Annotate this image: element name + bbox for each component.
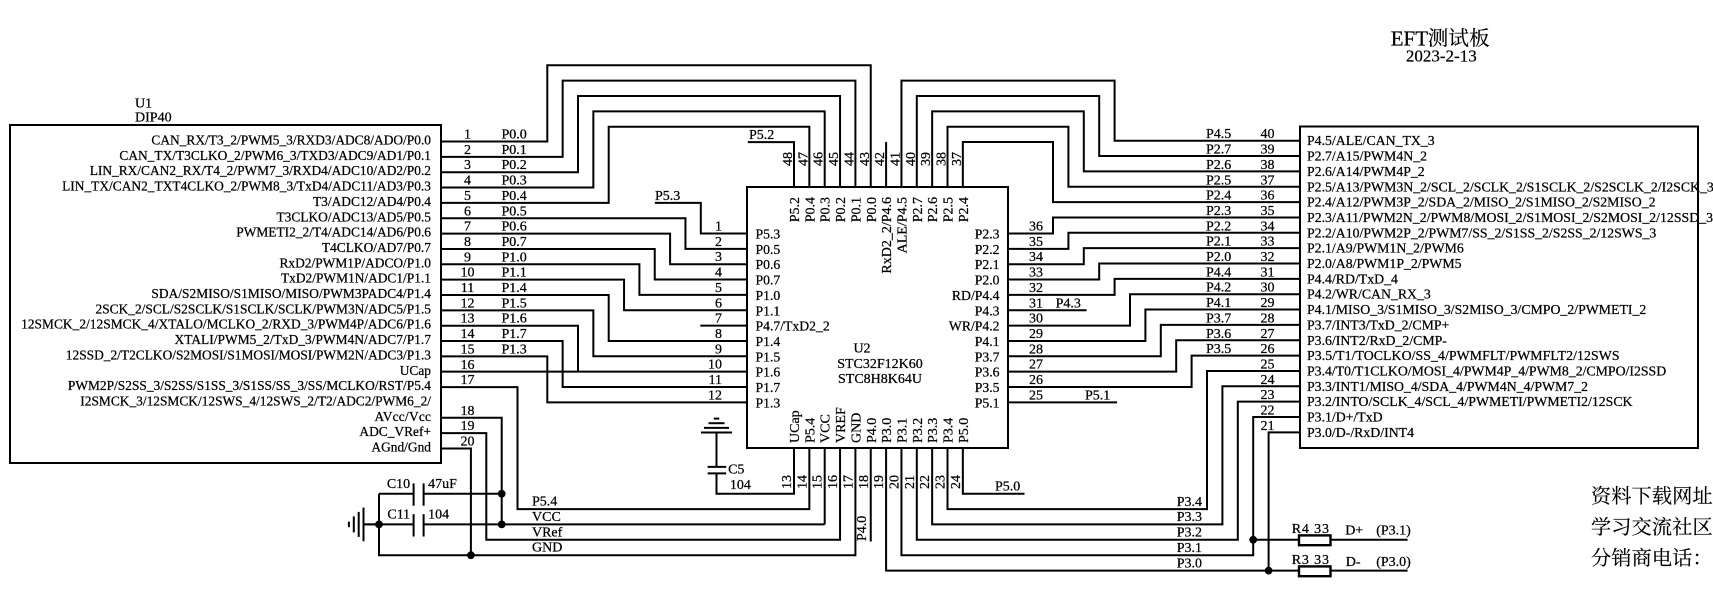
svg-text:5: 5 bbox=[464, 189, 471, 204]
wire P5.3 to U2 pin1 bbox=[655, 203, 747, 234]
svg-text:RxD2_2/P4.6: RxD2_2/P4.6 bbox=[880, 197, 895, 274]
svg-text:P0.5: P0.5 bbox=[756, 242, 781, 257]
svg-text:31: 31 bbox=[1029, 296, 1043, 311]
svg-text:P5.2: P5.2 bbox=[788, 197, 803, 222]
svg-text:P0.6: P0.6 bbox=[756, 257, 781, 272]
svg-text:U2: U2 bbox=[853, 342, 870, 357]
svg-text:P2.5: P2.5 bbox=[942, 197, 957, 222]
svg-text:P3.6/INT2/RxD_2/CMP-: P3.6/INT2/RxD_2/CMP- bbox=[1307, 333, 1447, 348]
svg-text:(P3.1): (P3.1) bbox=[1376, 524, 1411, 539]
svg-text:23: 23 bbox=[934, 475, 949, 489]
svg-text:R4 33: R4 33 bbox=[1292, 522, 1329, 537]
svg-text:16: 16 bbox=[826, 475, 841, 489]
stub U2 pin42 RxD2_2/P4.6 bbox=[885, 142, 887, 187]
wire U2 pin30 to right box pin30 bbox=[1008, 294, 1300, 325]
svg-text:GND: GND bbox=[849, 413, 864, 443]
svg-text:U1: U1 bbox=[135, 97, 152, 112]
svg-text:P5.1: P5.1 bbox=[1085, 388, 1110, 403]
wire AGnd U1 pin20 down to GND bbox=[441, 449, 471, 556]
wire U2 pin38 to right box pin37 bbox=[948, 127, 1301, 187]
footer text 学习交流社区 bbox=[1592, 517, 1611, 536]
stub U2 pin18 net P4.0 bbox=[870, 448, 872, 542]
svg-text:I2SMCK_3/12SMCK/12SWS_4/12SWS_: I2SMCK_3/12SMCK/12SWS_4/12SWS_2/T2/ADC2/… bbox=[80, 393, 431, 408]
svg-text:22: 22 bbox=[918, 475, 933, 489]
svg-text:ALE/P4.5: ALE/P4.5 bbox=[895, 197, 910, 253]
capacitor C11 104 bbox=[413, 514, 415, 536]
svg-text:P3.4: P3.4 bbox=[1177, 495, 1202, 510]
svg-text:P5.0: P5.0 bbox=[995, 480, 1020, 495]
wire P3.0 U2 to right box pin21 bbox=[886, 432, 1300, 570]
svg-text:P4.5/ALE/CAN_TX_3: P4.5/ALE/CAN_TX_3 bbox=[1307, 133, 1435, 148]
stub U2 pin7 P4.7/TxD2_2 bbox=[700, 325, 747, 327]
svg-text:18: 18 bbox=[857, 475, 872, 489]
svg-text:STC32F12K60: STC32F12K60 bbox=[837, 357, 923, 372]
svg-text:13: 13 bbox=[461, 312, 475, 327]
svg-text:5: 5 bbox=[715, 281, 722, 296]
svg-text:P5.1: P5.1 bbox=[975, 395, 1000, 410]
svg-text:12: 12 bbox=[461, 296, 475, 311]
svg-text:47uF: 47uF bbox=[428, 477, 457, 492]
svg-text:P5.2: P5.2 bbox=[749, 128, 774, 143]
svg-text:P0.0: P0.0 bbox=[502, 128, 527, 143]
wire U2 pin36 to right box pin35 bbox=[1008, 217, 1300, 233]
svg-text:P0.6: P0.6 bbox=[502, 220, 527, 235]
svg-text:AGnd/Gnd: AGnd/Gnd bbox=[371, 440, 431, 455]
svg-text:P3.0: P3.0 bbox=[880, 418, 895, 443]
svg-text:P4.0: P4.0 bbox=[865, 418, 880, 443]
junction bbox=[467, 551, 475, 559]
svg-text:15: 15 bbox=[811, 475, 826, 489]
svg-text:LIN_TX/CAN2_TXT4CLKO_2/PWM8_3/: LIN_TX/CAN2_TXT4CLKO_2/PWM8_3/TxD4/ADC11… bbox=[62, 179, 431, 194]
svg-text:P2.5/A13/PWM3N_2/SCL_2/SCLK_2/: P2.5/A13/PWM3N_2/SCL_2/SCLK_2/S1SCLK_2/S… bbox=[1307, 179, 1713, 194]
svg-text:P0.7: P0.7 bbox=[756, 273, 781, 288]
svg-text:P1.3: P1.3 bbox=[502, 342, 527, 357]
svg-text:P3.3: P3.3 bbox=[1177, 510, 1202, 525]
svg-text:15: 15 bbox=[461, 342, 475, 357]
svg-text:3: 3 bbox=[715, 250, 722, 265]
svg-text:P1.3: P1.3 bbox=[756, 395, 781, 410]
svg-text:P2.3: P2.3 bbox=[975, 227, 1000, 242]
wire D+ bbox=[1330, 539, 1407, 541]
stub U2 pin24 net P5.0 bbox=[963, 448, 1025, 494]
stub U2 pin25 net P5.1 bbox=[1008, 401, 1117, 403]
svg-text:P3.5/T1/TOCLKO/SS_4/PWMFLT/PWM: P3.5/T1/TOCLKO/SS_4/PWMFLT/PWMFLT2/12SWS bbox=[1307, 348, 1620, 363]
wire U2 pin39 to right box pin38 bbox=[932, 111, 1300, 187]
svg-text:P4.7/TxD2_2: P4.7/TxD2_2 bbox=[756, 319, 830, 334]
svg-text:14: 14 bbox=[461, 327, 475, 342]
svg-text:21: 21 bbox=[903, 475, 918, 489]
wire U2 pin34 to right box pin33 bbox=[1008, 248, 1300, 264]
svg-text:P3.3/INT1/MISO_4/SDA_4/PWM4N_4: P3.3/INT1/MISO_4/SDA_4/PWM4N_4/PWM7_2 bbox=[1307, 379, 1588, 394]
wire GND row to U2 pin17 bbox=[379, 448, 855, 555]
svg-text:9: 9 bbox=[464, 250, 471, 265]
svg-text:P0.7: P0.7 bbox=[502, 235, 527, 250]
svg-text:P2.2/A10/PWM2P_2/PWM7/SS_2/S1S: P2.2/A10/PWM2P_2/PWM7/SS_2/S1SS_2/S2SS_2… bbox=[1307, 225, 1656, 240]
wire U2 pin29 to right box pin29 bbox=[1008, 310, 1300, 341]
svg-text:C10: C10 bbox=[387, 477, 410, 492]
svg-text:PWMETI2_2/T4/ADC14/AD6/P0.6: PWMETI2_2/T4/ADC14/AD6/P0.6 bbox=[236, 225, 431, 240]
wire VCC row bbox=[365, 523, 414, 525]
svg-text:17: 17 bbox=[841, 475, 856, 489]
wire UCap U1 pin16 / U2 pin10 row bbox=[441, 371, 747, 373]
right connector box P4/P2/P3 breakout bbox=[1300, 127, 1698, 449]
svg-text:P5.4: P5.4 bbox=[803, 418, 818, 443]
svg-text:TxD2/PWM1N/ADC1/P1.1: TxD2/PWM1N/ADC1/P1.1 bbox=[281, 271, 431, 286]
wire U2 pin27 to right box pin27 bbox=[1008, 340, 1300, 371]
svg-text:P0.4: P0.4 bbox=[803, 197, 818, 222]
wire U1 pin15 to U2 pin12 bbox=[441, 356, 747, 402]
svg-text:PWM2P/S2SS_3/S2SS/S1SS_3/S1SS/: PWM2P/S2SS_3/S2SS/S1SS_3/S1SS/SS_3/SS/MC… bbox=[68, 378, 431, 393]
ground (left earth symbol) bbox=[348, 522, 350, 528]
svg-text:25: 25 bbox=[1029, 388, 1043, 403]
svg-text:UCap: UCap bbox=[400, 363, 432, 378]
svg-text:P0.5: P0.5 bbox=[502, 204, 527, 219]
svg-text:P0.3: P0.3 bbox=[819, 197, 834, 222]
svg-text:P3.2/INTO/SCLK_4/SCL_4/PWMETI/: P3.2/INTO/SCLK_4/SCL_4/PWMETI/PWMETI2/12… bbox=[1307, 394, 1633, 409]
svg-text:36: 36 bbox=[1029, 220, 1043, 235]
svg-text:12SMCK_2/12SMCK_4/XTALO/MCLKO_: 12SMCK_2/12SMCK_4/XTALO/MCLKO_2/RXD_3/PW… bbox=[21, 317, 431, 332]
svg-text:P5.3: P5.3 bbox=[655, 189, 680, 204]
svg-text:26: 26 bbox=[1029, 373, 1043, 388]
svg-text:19: 19 bbox=[872, 475, 887, 489]
svg-text:D+: D+ bbox=[1345, 524, 1363, 539]
svg-text:P3.2: P3.2 bbox=[1177, 526, 1202, 541]
svg-text:2: 2 bbox=[464, 143, 471, 158]
wire U2 pin37 to right box pin36 bbox=[963, 142, 1300, 202]
wire ADC_VRef+ U1 pin19 to U2 pin16 VREF bbox=[441, 433, 840, 540]
junction bbox=[498, 521, 506, 529]
svg-text:35: 35 bbox=[1029, 235, 1043, 250]
svg-text:P0.1: P0.1 bbox=[502, 143, 527, 158]
svg-text:P2.0/A8/PWM1P_2/PWM5: P2.0/A8/PWM1P_2/PWM5 bbox=[1307, 256, 1462, 271]
svg-text:P1.5: P1.5 bbox=[756, 349, 781, 364]
svg-text:P5.3: P5.3 bbox=[756, 227, 781, 242]
svg-text:3: 3 bbox=[464, 158, 471, 173]
wire U2 pin40 to right box pin39 bbox=[917, 96, 1300, 187]
resistor R3 33 bbox=[1299, 566, 1331, 576]
svg-text:P0.4: P0.4 bbox=[502, 189, 527, 204]
IC U1 DIP40 (left connector box) bbox=[10, 125, 441, 463]
svg-text:P4.1: P4.1 bbox=[975, 334, 1000, 349]
svg-text:C11: C11 bbox=[387, 508, 410, 523]
svg-text:P3.7: P3.7 bbox=[975, 349, 1000, 364]
svg-text:DIP40: DIP40 bbox=[135, 111, 172, 126]
svg-text:P2.4: P2.4 bbox=[957, 197, 972, 222]
wire C5 to U2 pin13 UCap bbox=[717, 448, 795, 494]
wire P0.0 U1 pin1 to U2 pin43 bbox=[441, 65, 871, 187]
svg-text:ADC_VRef+: ADC_VRef+ bbox=[359, 424, 431, 439]
wire U1 pin6 to U2 pin2 bbox=[441, 218, 747, 249]
svg-text:VREF: VREF bbox=[834, 407, 849, 443]
svg-text:104: 104 bbox=[428, 508, 449, 523]
svg-text:P2.7: P2.7 bbox=[911, 197, 926, 222]
svg-text:P3.6: P3.6 bbox=[975, 365, 1000, 380]
svg-text:XTALI/PWM5_2/TxD_3/PWM4N/ADC7/: XTALI/PWM5_2/TxD_3/PWM4N/ADC7/P1.7 bbox=[175, 332, 432, 347]
svg-text:P1.4: P1.4 bbox=[502, 281, 527, 296]
svg-text:24: 24 bbox=[949, 475, 964, 489]
svg-text:P2.7/A15/PWM4N_2: P2.7/A15/PWM4N_2 bbox=[1307, 149, 1427, 164]
svg-text:27: 27 bbox=[1029, 358, 1043, 373]
IC U2 STC32F12K60 (center MCU) bbox=[747, 187, 1008, 448]
svg-text:P2.2: P2.2 bbox=[975, 242, 1000, 257]
svg-text:2SCK_2/SCL/S2SCLK/S1SCLK/SCLK/: 2SCK_2/SCL/S2SCLK/S1SCLK/SCLK/PWM3N/ADC5… bbox=[96, 301, 432, 316]
svg-text:P3.3: P3.3 bbox=[926, 418, 941, 443]
svg-text:7: 7 bbox=[464, 220, 471, 235]
wire P0.3 U1 pin4 to U2 pin46 bbox=[441, 111, 825, 187]
svg-text:28: 28 bbox=[1029, 342, 1043, 357]
wire U2 pin33 to right box pin32 bbox=[1008, 264, 1300, 280]
svg-text:STC8H8K64U: STC8H8K64U bbox=[838, 372, 922, 387]
svg-text:R3 33: R3 33 bbox=[1292, 553, 1329, 568]
svg-text:CAN_TX/T3CLKO_2/PWM6_3/TXD3/AD: CAN_TX/T3CLKO_2/PWM6_3/TXD3/ADC9/AD1/P0.… bbox=[119, 148, 431, 163]
svg-text:16: 16 bbox=[461, 358, 475, 373]
svg-text:(P3.0): (P3.0) bbox=[1376, 555, 1411, 570]
wire P5.2 to U2 pin48 bbox=[748, 142, 794, 187]
svg-text:P0.2: P0.2 bbox=[502, 158, 527, 173]
wire U1 pin7 to U2 pin3 bbox=[441, 234, 747, 265]
wire to R3 bbox=[1269, 570, 1300, 572]
svg-text:104: 104 bbox=[730, 478, 751, 493]
svg-text:P0.3: P0.3 bbox=[502, 174, 527, 189]
wire P1.6 U1 pin13 to U2 pin10 bbox=[441, 326, 578, 372]
wire C10 row bbox=[379, 493, 414, 495]
svg-text:VRef: VRef bbox=[532, 525, 563, 540]
svg-text:RxD2/PWM1P/ADCO/P1.0: RxD2/PWM1P/ADCO/P1.0 bbox=[280, 255, 432, 270]
svg-text:P4.4/RD/TxD_4: P4.4/RD/TxD_4 bbox=[1307, 271, 1398, 286]
svg-text:P3.4/T0/T1CLKO/MOSI_4/PWM4P_4/: P3.4/T0/T1CLKO/MOSI_4/PWM4P_4/PWM8_2/CMP… bbox=[1307, 363, 1666, 378]
svg-text:P3.0: P3.0 bbox=[1177, 556, 1202, 571]
svg-text:8: 8 bbox=[715, 327, 722, 342]
wire U1 pin12 to U2 pin9 bbox=[441, 310, 747, 356]
svg-text:LIN_RX/CAN2_RX/T4_2/PWM7_3/RXD: LIN_RX/CAN2_RX/T4_2/PWM7_3/RXD4/ADC10/AD… bbox=[90, 163, 431, 178]
wire to R4 bbox=[1253, 539, 1299, 541]
wire U1 pin14 to U2 pin11 bbox=[441, 341, 747, 387]
svg-text:12: 12 bbox=[708, 388, 722, 403]
svg-text:29: 29 bbox=[1029, 327, 1043, 342]
svg-text:P1.7: P1.7 bbox=[502, 327, 527, 342]
wire U2 pin26 to right box pin26 bbox=[1008, 356, 1300, 387]
svg-text:8: 8 bbox=[464, 235, 471, 250]
svg-text:P4.0: P4.0 bbox=[855, 516, 870, 541]
svg-text:P2.6/A14/PWM4P_2: P2.6/A14/PWM4P_2 bbox=[1307, 164, 1425, 179]
wire U1 pin9 to U2 pin5 bbox=[441, 264, 747, 295]
wire U2 pin15 VCC drop bbox=[824, 448, 826, 524]
svg-text:P1.4: P1.4 bbox=[756, 334, 781, 349]
svg-text:P2.4/A12/PWM3P_2/SDA_2/MISO_2/: P2.4/A12/PWM3P_2/SDA_2/MISO_2/S1MISO_2/S… bbox=[1307, 195, 1656, 210]
svg-text:6: 6 bbox=[464, 204, 471, 219]
svg-text:P1.0: P1.0 bbox=[502, 250, 527, 265]
svg-text:D-: D- bbox=[1346, 555, 1361, 570]
svg-text:34: 34 bbox=[1029, 250, 1043, 265]
svg-text:P1.6: P1.6 bbox=[756, 365, 781, 380]
svg-text:7: 7 bbox=[715, 312, 722, 327]
svg-text:P3.0/D-/RxD/INT4: P3.0/D-/RxD/INT4 bbox=[1307, 425, 1414, 440]
stub U2 pin31 net P4.3 bbox=[1008, 309, 1087, 311]
svg-text:T3CLKO/ADC13/AD5/P0.5: T3CLKO/ADC13/AD5/P0.5 bbox=[277, 209, 432, 224]
svg-text:C5: C5 bbox=[728, 463, 744, 478]
svg-text:VCC: VCC bbox=[532, 510, 561, 525]
capacitor C5 104 bbox=[716, 433, 718, 467]
svg-text:GND: GND bbox=[532, 541, 562, 556]
capacitor C10 47uF bbox=[413, 483, 415, 505]
svg-text:P4.2/WR/CAN_RX_3: P4.2/WR/CAN_RX_3 bbox=[1307, 287, 1431, 302]
svg-text:UCap: UCap bbox=[788, 410, 803, 443]
svg-text:P0.2: P0.2 bbox=[834, 197, 849, 222]
wire P3.4 U2 to right box pin25 bbox=[948, 371, 1301, 509]
wire RST/P5.4 U1 pin17 to U2 pin14 bbox=[441, 387, 809, 509]
svg-text:12SSD_2/T2CLKO/S2MOSI/S1MOSI/M: 12SSD_2/T2CLKO/S2MOSI/S1MOSI/MOSI/PWM2N/… bbox=[66, 347, 431, 362]
svg-text:P3.1: P3.1 bbox=[895, 418, 910, 443]
junction bbox=[1265, 567, 1273, 575]
wire D- bbox=[1330, 570, 1407, 572]
svg-text:13: 13 bbox=[780, 475, 795, 489]
junction bbox=[1249, 536, 1257, 544]
svg-text:9: 9 bbox=[715, 342, 722, 357]
wire P3.2 U2 to right box pin23 bbox=[917, 402, 1300, 540]
svg-text:10: 10 bbox=[708, 358, 722, 373]
svg-text:P5.0: P5.0 bbox=[957, 418, 972, 443]
svg-text:P4.1/MISO_3/S1MISO_3/S2MISO_3/: P4.1/MISO_3/S1MISO_3/S2MISO_3/CMPO_2/PWM… bbox=[1307, 302, 1646, 317]
svg-text:P2.1: P2.1 bbox=[975, 257, 1000, 272]
wire P0.1 U1 pin2 to U2 pin44 bbox=[441, 81, 855, 187]
svg-text:2: 2 bbox=[715, 235, 722, 250]
svg-text:P3.1/D+/TxD: P3.1/D+/TxD bbox=[1307, 410, 1383, 425]
svg-text:P1.0: P1.0 bbox=[756, 288, 781, 303]
svg-text:P2.3/A11/PWM2N_2/PWM8/MOSI_2/S: P2.3/A11/PWM2N_2/PWM8/MOSI_2/S1MOSI_2/S2… bbox=[1307, 210, 1713, 225]
ground (above C5) bbox=[714, 418, 720, 420]
svg-text:RD/P4.4: RD/P4.4 bbox=[952, 288, 1000, 303]
svg-text:P4.3: P4.3 bbox=[975, 303, 1000, 318]
svg-text:20: 20 bbox=[887, 475, 902, 489]
svg-text:11: 11 bbox=[709, 373, 722, 388]
footer text 资料下载网址 bbox=[1592, 486, 1610, 505]
svg-text:P3.5: P3.5 bbox=[975, 380, 1000, 395]
svg-text:P3.4: P3.4 bbox=[942, 418, 957, 443]
wire P3.3 U2 to right box pin24 bbox=[932, 386, 1300, 524]
svg-text:T3/ADC12/AD4/P0.4: T3/ADC12/AD4/P0.4 bbox=[313, 194, 431, 209]
svg-text:P3.1: P3.1 bbox=[1177, 541, 1202, 556]
svg-text:18: 18 bbox=[461, 404, 475, 419]
svg-text:19: 19 bbox=[461, 419, 475, 434]
svg-text:30: 30 bbox=[1029, 312, 1043, 327]
junction bbox=[498, 490, 506, 498]
svg-text:P1.1: P1.1 bbox=[756, 303, 781, 318]
svg-text:P1.1: P1.1 bbox=[502, 266, 527, 281]
svg-text:P0.0: P0.0 bbox=[865, 197, 880, 222]
svg-text:2023-2-13: 2023-2-13 bbox=[1406, 46, 1477, 65]
wire P0.2 U1 pin3 to U2 pin45 bbox=[441, 96, 840, 187]
wire U2 pin41 to right box pin40 bbox=[901, 81, 1300, 187]
wire U1 pin8 to U2 pin4 bbox=[441, 249, 747, 280]
svg-text:20: 20 bbox=[461, 435, 475, 450]
svg-text:P4.3: P4.3 bbox=[1056, 296, 1081, 311]
svg-text:SDA/S2MISO/S1MISO/MISO/PWM3PAD: SDA/S2MISO/S1MISO/MISO/PWM3PADC4/P1.4 bbox=[151, 286, 431, 301]
svg-text:P2.1/A9/PWM1N_2/PWM6: P2.1/A9/PWM1N_2/PWM6 bbox=[1307, 241, 1464, 256]
svg-text:11: 11 bbox=[461, 281, 474, 296]
wire P0.4 U1 pin5 to U2 pin47 bbox=[441, 127, 809, 203]
svg-text:P1.5: P1.5 bbox=[502, 296, 527, 311]
svg-text:AVcc/Vcc: AVcc/Vcc bbox=[375, 409, 432, 424]
svg-text:P0.1: P0.1 bbox=[849, 197, 864, 222]
svg-text:WR/P4.2: WR/P4.2 bbox=[949, 319, 1000, 334]
wire U2 pin32 to right box pin31 bbox=[1008, 279, 1300, 295]
wire AVcc U1 pin18 down to VCC bbox=[441, 418, 502, 525]
svg-text:T4CLKO/AD7/P0.7: T4CLKO/AD7/P0.7 bbox=[322, 240, 431, 255]
svg-text:P5.4: P5.4 bbox=[532, 495, 557, 510]
svg-text:CAN_RX/T3_2/PWM5_3/RXD3/ADC8/A: CAN_RX/T3_2/PWM5_3/RXD3/ADC8/ADO/P0.0 bbox=[151, 133, 431, 148]
svg-text:33: 33 bbox=[1029, 266, 1043, 281]
svg-text:17: 17 bbox=[461, 373, 475, 388]
svg-text:14: 14 bbox=[795, 475, 810, 489]
svg-text:P3.7/INT3/TxD_2/CMP+: P3.7/INT3/TxD_2/CMP+ bbox=[1307, 317, 1450, 332]
svg-text:P1.6: P1.6 bbox=[502, 312, 527, 327]
wire P3.1 U2 to right box pin22 bbox=[901, 417, 1300, 555]
svg-text:4: 4 bbox=[715, 266, 722, 281]
wire U1 pin11 to U2 pin8 bbox=[441, 295, 747, 341]
svg-text:P3.2: P3.2 bbox=[911, 418, 926, 443]
svg-text:6: 6 bbox=[715, 296, 722, 311]
wire U1 pin10 to U2 pin6 bbox=[441, 280, 747, 311]
resistor R4 33 bbox=[1299, 535, 1331, 545]
svg-text:P2.6: P2.6 bbox=[926, 197, 941, 222]
svg-text:4: 4 bbox=[464, 174, 471, 189]
svg-text:10: 10 bbox=[461, 266, 475, 281]
svg-text:VCC: VCC bbox=[819, 414, 834, 443]
footer text 分销商电话： bbox=[1592, 548, 1611, 567]
svg-text:1: 1 bbox=[715, 220, 722, 235]
svg-text:P2.0: P2.0 bbox=[975, 273, 1000, 288]
wire U2 pin28 to right box pin28 bbox=[1008, 325, 1300, 356]
wire U2 pin35 to right box pin34 bbox=[1008, 233, 1300, 249]
svg-text:1: 1 bbox=[464, 128, 471, 143]
junction bbox=[375, 521, 383, 529]
svg-text:P1.7: P1.7 bbox=[756, 380, 781, 395]
svg-text:32: 32 bbox=[1029, 281, 1043, 296]
